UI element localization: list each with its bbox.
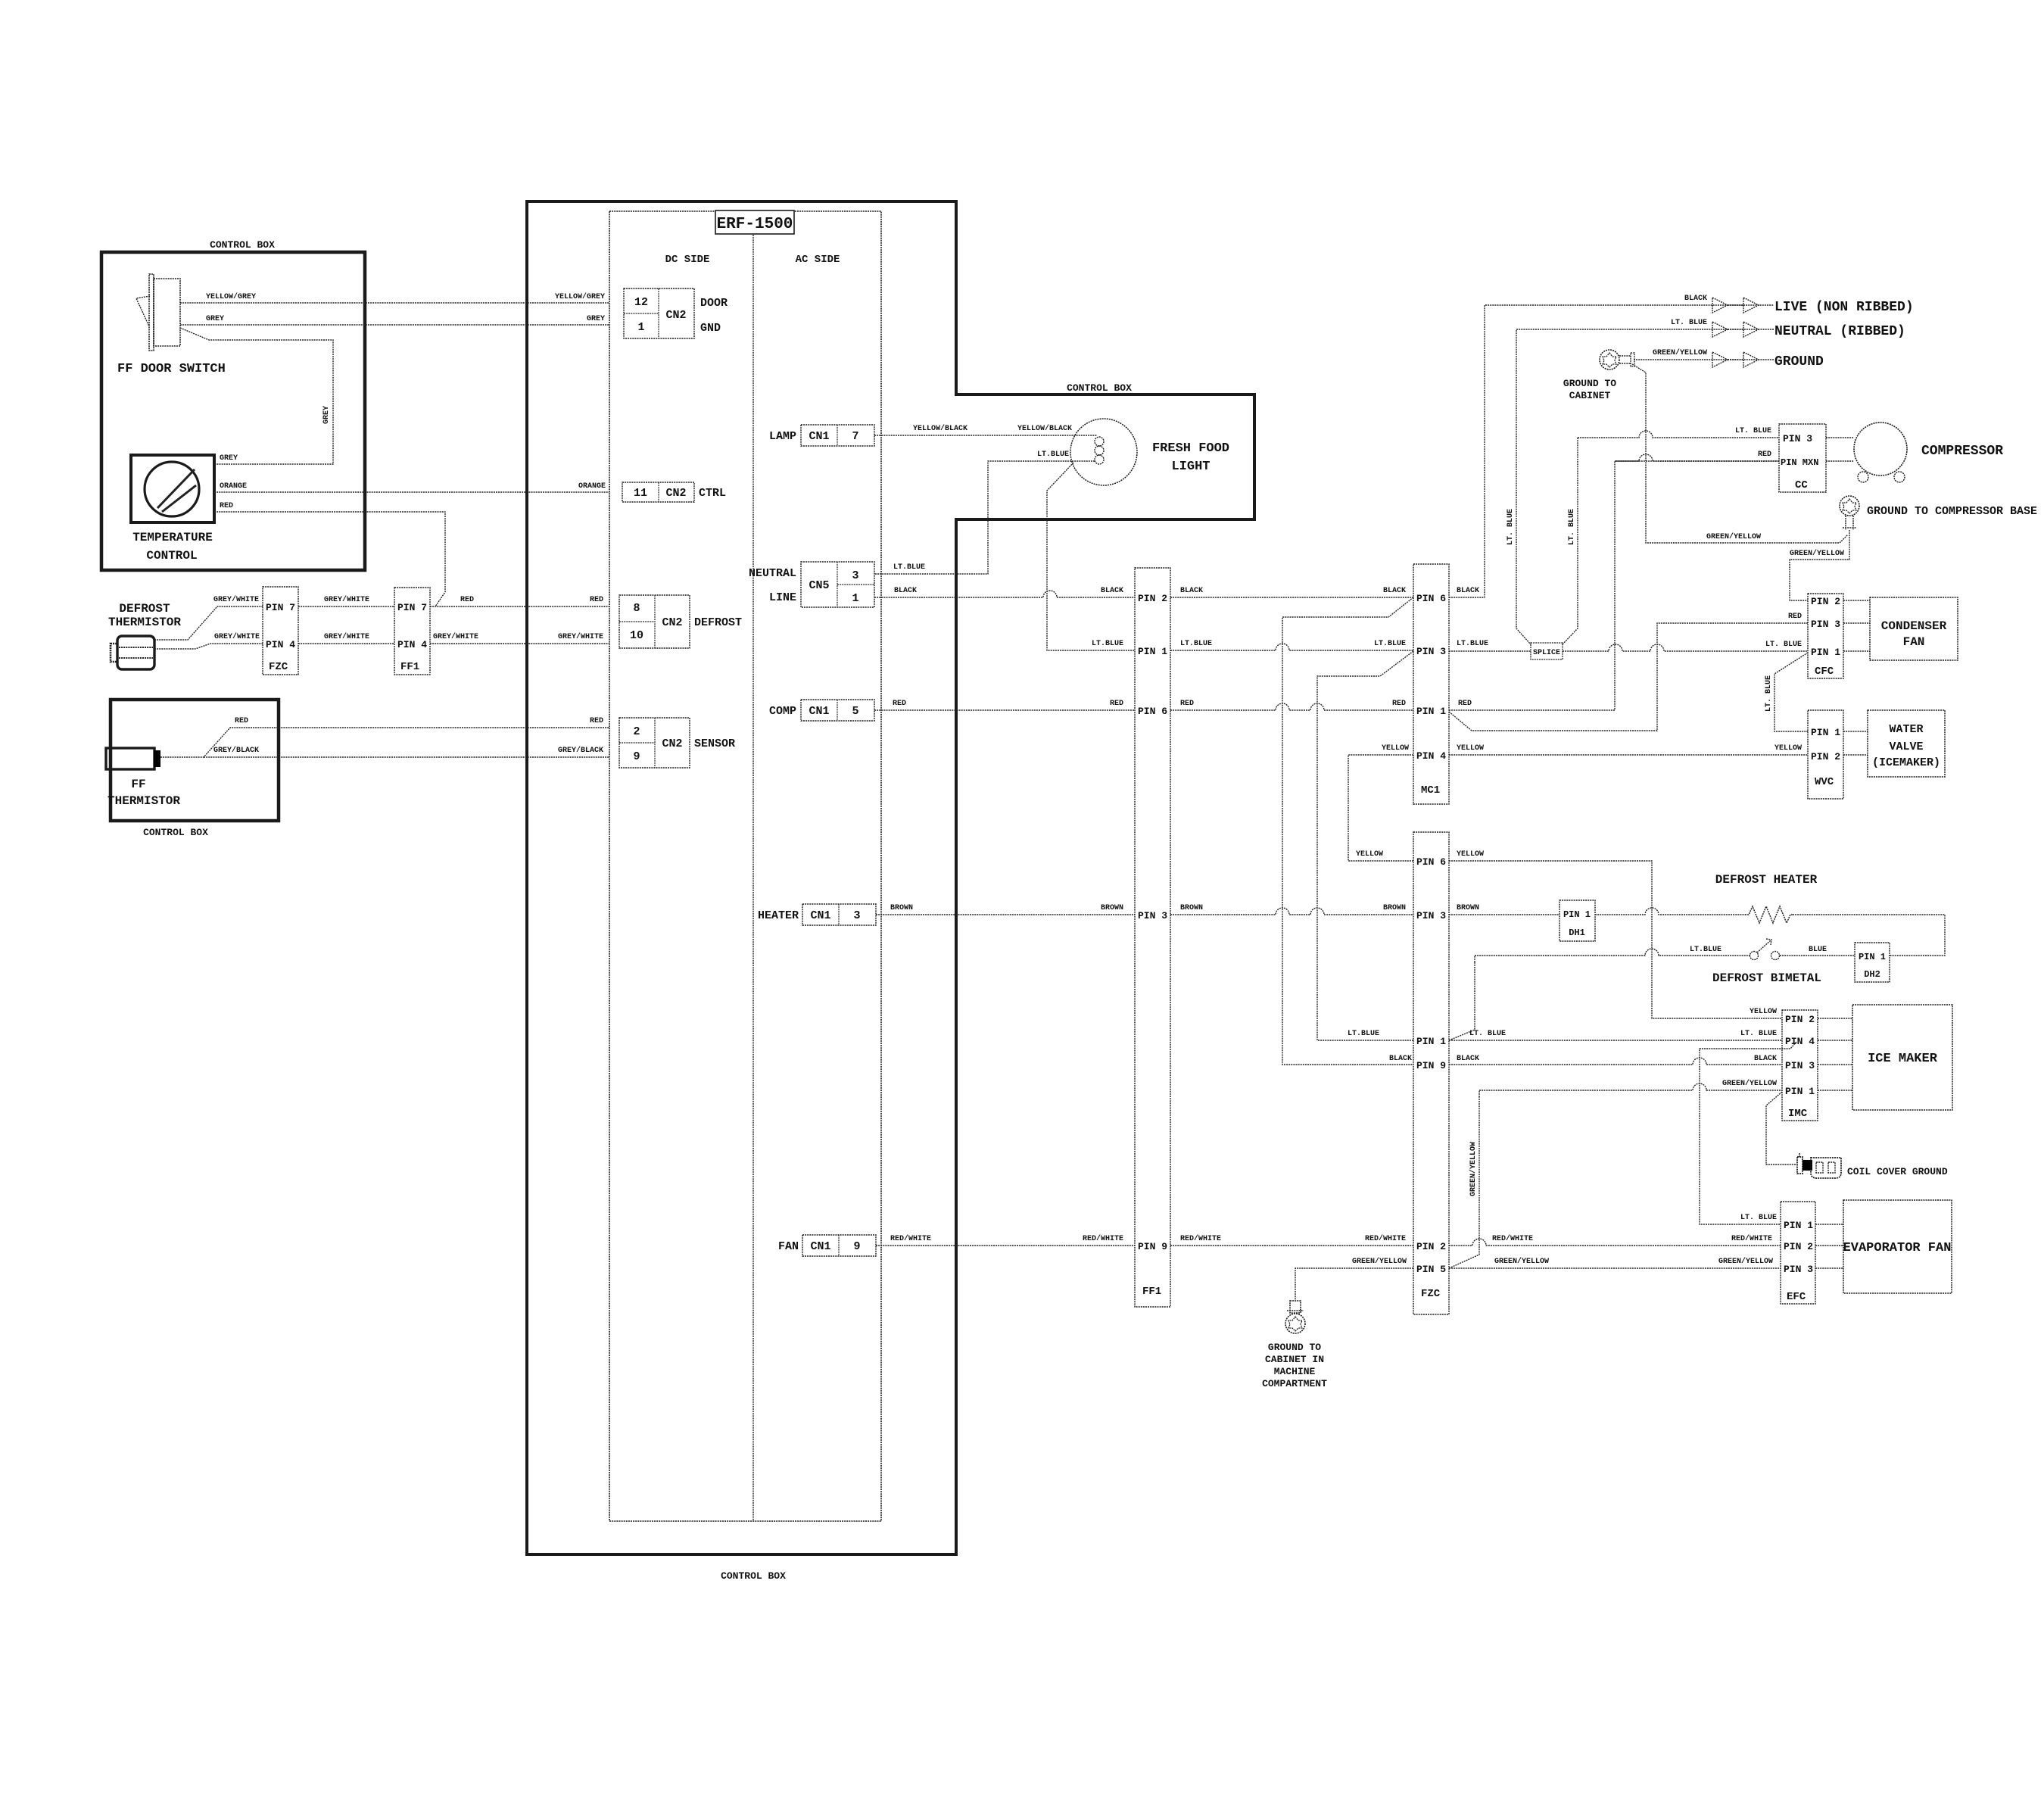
svg-text:LT. BLUE: LT. BLUE xyxy=(1740,1214,1777,1222)
wire LT.BLUE vertical down to splice xyxy=(1563,438,1578,644)
port CN2 DOOR/GND xyxy=(624,288,694,338)
connector EFC column xyxy=(1781,1202,1815,1304)
svg-text:YELLOW: YELLOW xyxy=(1457,850,1484,859)
svg-text:CONTROL BOX: CONTROL BOX xyxy=(143,827,208,838)
wire LT.BLUE MC1 pin3 branch down to FZC pin1 xyxy=(1317,651,1413,1040)
svg-text:RED: RED xyxy=(1180,700,1194,708)
svg-text:PIN MXN: PIN MXN xyxy=(1781,457,1818,468)
temperature control TC1 dial circle xyxy=(145,462,199,516)
wire EFC pin2 to evaporator fan xyxy=(1815,1245,1843,1246)
svg-text:THERMISTOR: THERMISTOR xyxy=(108,616,181,629)
svg-text:YELLOW: YELLOW xyxy=(1356,850,1383,859)
svg-text:LT. BLUE: LT. BLUE xyxy=(1469,1030,1506,1038)
wire WVC pin1 to water valve xyxy=(1843,731,1868,732)
svg-text:PIN 2: PIN 2 xyxy=(1416,1241,1446,1252)
FF door switch S1 body xyxy=(154,279,180,346)
wire LT.BLUE FZC pin1 up to defrost bimetal xyxy=(1449,962,1475,1040)
svg-text:PIN 1: PIN 1 xyxy=(1416,1036,1446,1047)
svg-text:RED/WHITE: RED/WHITE xyxy=(1180,1234,1221,1243)
svg-text:PIN 7: PIN 7 xyxy=(397,602,427,613)
port CN1-7 LAMP xyxy=(801,425,874,446)
svg-text:RED: RED xyxy=(1758,451,1771,459)
wire LT.BLUE FZC pin1 to IMC pin4 xyxy=(1449,1040,1782,1041)
svg-text:EVAPORATOR FAN: EVAPORATOR FAN xyxy=(1843,1241,1952,1255)
svg-text:SPLICE: SPLICE xyxy=(1533,649,1560,657)
wire CFC pin1 to condenser fan xyxy=(1843,650,1870,652)
svg-text:PIN 2: PIN 2 xyxy=(1784,1241,1813,1252)
wire LT.BLUE CFC pin1 down to WVC pin1 xyxy=(1774,653,1808,731)
wire BROWN DH1 to defrost heater xyxy=(1595,908,1745,915)
svg-text:FF DOOR SWITCH: FF DOOR SWITCH xyxy=(117,362,226,376)
svg-text:GREY/WHITE: GREY/WHITE xyxy=(558,632,603,641)
svg-text:FF1: FF1 xyxy=(1142,1286,1161,1298)
ground screw to cabinet xyxy=(1600,350,1619,369)
FF thermistor RT2 cap xyxy=(154,750,160,767)
svg-text:RED/WHITE: RED/WHITE xyxy=(1083,1234,1123,1243)
port CN5 NEUTRAL LINE xyxy=(801,562,874,607)
svg-text:ICE MAKER: ICE MAKER xyxy=(1868,1052,1938,1066)
svg-text:BROWN: BROWN xyxy=(1457,904,1479,912)
wire LT.BLUE lamp down to FF1 pin1 xyxy=(1047,463,1135,650)
connector FZC main column xyxy=(1413,832,1449,1314)
svg-text:RED: RED xyxy=(893,700,906,708)
svg-text:LIVE (NON RIBBED): LIVE (NON RIBBED) xyxy=(1774,300,1914,315)
wire GREY/WHITE FZC pin4 to FF1 pin4 xyxy=(298,643,394,644)
wire GREY/WHITE defrost-thermistor to FZC pin4 xyxy=(154,644,263,649)
svg-text:BLUE: BLUE xyxy=(1809,946,1827,954)
svg-text:GREY/WHITE: GREY/WHITE xyxy=(324,632,369,641)
wire LT.BLUE CC pin3 from splice xyxy=(1578,431,1779,438)
svg-text:GREY/WHITE: GREY/WHITE xyxy=(213,595,259,604)
svg-text:9: 9 xyxy=(633,750,640,763)
svg-text:GREEN/YELLOW: GREEN/YELLOW xyxy=(1718,1257,1773,1266)
svg-text:LT.BLUE: LT.BLUE xyxy=(1457,640,1488,648)
terminal arrows NEUTRAL xyxy=(1712,322,1728,337)
defrost thermistor RT1 stripes xyxy=(119,647,153,648)
connector DH1 box xyxy=(1559,900,1595,941)
svg-text:GROUND: GROUND xyxy=(1774,354,1824,369)
ERF-1500 inner board box xyxy=(609,211,881,1521)
svg-text:HEATER: HEATER xyxy=(758,909,799,922)
svg-text:PIN 4: PIN 4 xyxy=(1416,750,1446,762)
control box (FF thermistor) outline xyxy=(111,700,279,821)
svg-text:GREY/WHITE: GREY/WHITE xyxy=(324,595,369,604)
wire GREEN/YELLOW FZC pin5 to machine-compartment ground xyxy=(1295,1268,1413,1301)
svg-text:LT. BLUE: LT. BLUE xyxy=(1735,427,1771,435)
wire GREEN/YELLOW cabinet ground down to compressor base lug xyxy=(1632,364,1848,543)
svg-text:IMC: IMC xyxy=(1788,1108,1808,1120)
FF door switch S1 plate xyxy=(149,274,154,351)
svg-text:BLACK: BLACK xyxy=(1389,1055,1412,1063)
svg-text:WVC: WVC xyxy=(1815,776,1834,788)
svg-text:BROWN: BROWN xyxy=(1383,904,1406,912)
svg-text:MC1: MC1 xyxy=(1421,784,1440,797)
svg-text:GREY/WHITE: GREY/WHITE xyxy=(433,632,478,641)
wire WVC pin2 to water valve xyxy=(1843,754,1868,756)
svg-text:CN2: CN2 xyxy=(665,309,686,322)
wire RED/WHITE CN1-9 to FF1 pin9 xyxy=(876,1245,1135,1246)
wire YELLOW MC1 pin4 to WVC pin2 xyxy=(1449,754,1808,756)
svg-text:CFC: CFC xyxy=(1815,666,1834,678)
svg-text:LIGHT: LIGHT xyxy=(1171,460,1210,474)
svg-text:CONDENSER: CONDENSER xyxy=(1881,619,1947,633)
wire GREEN/YELLOW FZC pin5 up to IMC pin1 xyxy=(1449,1097,1479,1268)
compressor M1 circle xyxy=(1854,422,1907,475)
terminal arrows GROUND xyxy=(1712,352,1728,367)
defrost thermistor RT1 body xyxy=(117,636,154,669)
wire GREY/WHITE FZC pin7 to FF1 pin7 xyxy=(298,606,394,607)
svg-text:GREY: GREY xyxy=(206,315,224,323)
svg-text:RED/WHITE: RED/WHITE xyxy=(1365,1234,1406,1243)
wire EFC pin3 to evaporator fan xyxy=(1815,1267,1843,1269)
svg-text:RED/WHITE: RED/WHITE xyxy=(1731,1234,1772,1243)
svg-text:PIN 1: PIN 1 xyxy=(1563,909,1591,920)
svg-text:PIN 9: PIN 9 xyxy=(1416,1060,1446,1071)
svg-text:PIN 1: PIN 1 xyxy=(1138,646,1167,657)
svg-text:FF1: FF1 xyxy=(400,661,419,673)
svg-text:CONTROL BOX: CONTROL BOX xyxy=(210,239,275,251)
wire BLUE bimetal to DH2 xyxy=(1780,955,1855,956)
switch defrost bimetal S2 contacts xyxy=(1750,952,1759,960)
wire IMC pin2 to ice maker xyxy=(1818,1018,1852,1019)
wire GREEN/YELLOW compressor base lug down to CFC pin2 xyxy=(1790,530,1849,600)
svg-text:BLACK: BLACK xyxy=(1754,1055,1777,1063)
condenser fan box xyxy=(1870,597,1958,660)
svg-text:BLACK: BLACK xyxy=(1684,295,1707,303)
wire LT.BLUE splice to CFC pin1 xyxy=(1563,644,1808,651)
wire BLACK FZC pin9 to IMC pin3 xyxy=(1449,1058,1782,1065)
svg-text:RED: RED xyxy=(460,596,474,604)
svg-text:EFC: EFC xyxy=(1787,1291,1806,1303)
wire CFC pin3 to condenser fan xyxy=(1843,622,1870,624)
port CN1-3 HEATER xyxy=(802,904,876,925)
port CN2 SENSOR xyxy=(619,718,690,768)
svg-text:PIN 2: PIN 2 xyxy=(1785,1014,1815,1025)
wire LT.BLUE FF1 pin1 to MC1 pin3 xyxy=(1170,644,1413,650)
svg-text:BROWN: BROWN xyxy=(1101,904,1123,912)
svg-text:BLACK: BLACK xyxy=(1457,1055,1479,1063)
svg-text:PIN 3: PIN 3 xyxy=(1416,646,1446,657)
svg-text:LT. BLUE: LT. BLUE xyxy=(1765,675,1773,712)
svg-text:DH2: DH2 xyxy=(1864,969,1880,980)
wire RED FF-thermistor to CN2-2 xyxy=(160,728,609,757)
svg-text:PIN 9: PIN 9 xyxy=(1138,1241,1167,1252)
svg-text:PIN 6: PIN 6 xyxy=(1416,856,1446,868)
svg-text:CONTROL: CONTROL xyxy=(146,549,197,563)
svg-text:RED: RED xyxy=(220,502,233,510)
svg-text:GND: GND xyxy=(700,322,721,335)
svg-text:RED: RED xyxy=(1788,613,1802,621)
svg-text:RED: RED xyxy=(1110,700,1123,708)
svg-text:PIN 3: PIN 3 xyxy=(1783,433,1812,444)
FF thermistor RT2 body xyxy=(106,748,154,769)
wire YELLOW FZC pin6 down to IMC pin2 xyxy=(1449,861,1782,1018)
wire RED FF1 pin6 to MC1 pin1 xyxy=(1170,703,1413,710)
svg-text:PIN 3: PIN 3 xyxy=(1811,619,1840,630)
wire BROWN FF1 pin3 to FZC pin3 xyxy=(1170,908,1413,915)
wire CFC pin2 to condenser fan xyxy=(1843,600,1870,601)
ERF-1500 DC/AC divider xyxy=(752,211,754,1521)
svg-text:CTRL: CTRL xyxy=(699,487,726,500)
svg-text:PIN 3: PIN 3 xyxy=(1784,1264,1813,1275)
wire YELLOW/GREY door-switch to CN2-12 xyxy=(180,302,609,304)
svg-text:2: 2 xyxy=(633,725,640,738)
svg-text:RED: RED xyxy=(1392,700,1406,708)
svg-text:PIN 6: PIN 6 xyxy=(1138,706,1167,717)
svg-text:PIN 1: PIN 1 xyxy=(1859,952,1886,962)
wire BROWN FZC pin3 to DH1 xyxy=(1449,914,1559,915)
wire BLACK MC1 pin6 up to LIVE xyxy=(1449,305,1774,597)
ground lug to cabinet in machine compartment xyxy=(1290,1301,1301,1313)
wire RED MC1 pin1 jog to CFC pin3 xyxy=(1449,623,1808,731)
svg-text:FF: FF xyxy=(131,778,145,791)
svg-text:DC SIDE: DC SIDE xyxy=(665,254,710,266)
svg-text:RED: RED xyxy=(590,717,603,725)
port CN1-9 FAN xyxy=(802,1235,876,1256)
svg-text:NEUTRAL (RIBBED): NEUTRAL (RIBBED) xyxy=(1774,324,1905,339)
wire RED/WHITE FZC pin2 to EFC pin2 xyxy=(1449,1239,1781,1246)
svg-text:GROUND TO: GROUND TO xyxy=(1268,1342,1321,1353)
svg-text:GREEN/YELLOW: GREEN/YELLOW xyxy=(1494,1257,1549,1266)
wire YELLOW MC1 pin4 to FZC pin6 xyxy=(1348,755,1413,861)
svg-text:GREY: GREY xyxy=(587,315,605,323)
svg-text:AC SIDE: AC SIDE xyxy=(796,254,840,266)
svg-text:ERF-1500: ERF-1500 xyxy=(717,216,793,233)
temperature control TC1 box xyxy=(131,455,214,522)
svg-text:PIN 1: PIN 1 xyxy=(1785,1086,1815,1097)
wire IMC pin1 to ice maker xyxy=(1818,1090,1852,1091)
connector MC1 column xyxy=(1413,564,1449,804)
svg-text:CABINET IN: CABINET IN xyxy=(1265,1354,1324,1365)
svg-text:WATER: WATER xyxy=(1889,723,1923,736)
wire GREEN/YELLOW cabinet ground to GROUND xyxy=(1634,359,1774,360)
svg-text:8: 8 xyxy=(633,602,640,615)
svg-text:COIL COVER GROUND: COIL COVER GROUND xyxy=(1847,1166,1948,1177)
svg-text:LT.BLUE: LT.BLUE xyxy=(1037,451,1069,459)
wire RED FF1 pin7 to CN2-8 xyxy=(430,606,609,607)
connector CC box xyxy=(1779,424,1826,492)
svg-text:PIN 4: PIN 4 xyxy=(266,639,295,650)
connector DH2 box xyxy=(1855,943,1890,982)
ERF-1500 control box outer outline with fresh-food-light bay xyxy=(527,201,1254,1554)
svg-text:7: 7 xyxy=(852,430,858,443)
svg-text:PIN 3: PIN 3 xyxy=(1138,910,1167,921)
svg-text:CN1: CN1 xyxy=(809,430,829,443)
ice maker box xyxy=(1852,1005,1952,1110)
wire RED temp-control down to FF1 pin7 node xyxy=(214,512,445,606)
svg-text:LAMP: LAMP xyxy=(769,430,796,443)
svg-text:YELLOW: YELLOW xyxy=(1750,1008,1777,1016)
svg-text:3: 3 xyxy=(853,909,860,922)
svg-text:GREEN/YELLOW: GREEN/YELLOW xyxy=(1469,1142,1478,1196)
svg-text:DEFROST BIMETAL: DEFROST BIMETAL xyxy=(1712,971,1821,985)
svg-text:LT.BLUE: LT.BLUE xyxy=(1374,640,1406,648)
lamp DS1 filament coil xyxy=(1095,437,1104,446)
wire RED CN1-5 to FF1 pin6 xyxy=(874,709,1135,711)
svg-text:PIN 3: PIN 3 xyxy=(1785,1060,1815,1071)
wire GREY/WHITE defrost-thermistor to FZC pin7 xyxy=(154,606,263,640)
svg-text:GREY: GREY xyxy=(322,406,331,424)
terminal arrows LIVE xyxy=(1712,298,1728,313)
svg-text:ORANGE: ORANGE xyxy=(578,482,606,491)
switch defrost bimetal S2 arm xyxy=(1757,940,1771,953)
connector IMC column xyxy=(1782,1010,1818,1121)
svg-text:RED: RED xyxy=(235,717,248,725)
svg-text:LT. BLUE: LT. BLUE xyxy=(1765,641,1802,649)
svg-text:PIN 1: PIN 1 xyxy=(1416,706,1446,717)
defrost thermistor RT1 left tab xyxy=(111,644,117,662)
svg-text:CC: CC xyxy=(1795,479,1808,491)
svg-text:YELLOW: YELLOW xyxy=(1457,744,1484,753)
svg-text:YELLOW/BLACK: YELLOW/BLACK xyxy=(913,424,967,433)
svg-text:FAN: FAN xyxy=(1903,635,1925,649)
wire GREY/BLACK FF-thermistor to CN2-9 xyxy=(204,756,609,758)
wire RED CC pin MXN segment hop xyxy=(1615,454,1779,461)
svg-text:DH1: DH1 xyxy=(1569,928,1585,938)
svg-text:DEFROST: DEFROST xyxy=(119,602,170,616)
svg-text:VALVE: VALVE xyxy=(1889,740,1923,753)
water valve box xyxy=(1868,710,1945,777)
wire GREY door-switch branch down to temperature control xyxy=(180,328,333,464)
wire CC mxn to compressor xyxy=(1826,460,1854,462)
svg-text:GREEN/YELLOW: GREEN/YELLOW xyxy=(1706,532,1761,541)
svg-text:LT.BLUE: LT.BLUE xyxy=(893,563,925,572)
ground coil cover lug xyxy=(1797,1157,1803,1174)
svg-text:SENSOR: SENSOR xyxy=(694,737,735,750)
wire LT.BLUE jog branch down to EFC pin1 xyxy=(1700,1042,1796,1224)
svg-text:CN2: CN2 xyxy=(665,487,686,500)
svg-text:YELLOW/BLACK: YELLOW/BLACK xyxy=(1017,424,1072,433)
wire LT.BLUE lamp to CN5-3 xyxy=(874,461,1095,574)
svg-text:LT.BLUE: LT.BLUE xyxy=(1180,640,1212,648)
svg-text:DEFROST: DEFROST xyxy=(694,616,742,629)
svg-text:BLACK: BLACK xyxy=(1457,587,1479,595)
wire LT.BLUE NEUTRAL down to splice xyxy=(1516,329,1774,644)
wire BLACK CN5-1 to FF1 pin2 xyxy=(874,591,1135,597)
svg-text:FZC: FZC xyxy=(1421,1288,1441,1300)
connector FF1 (defrost thermistor) xyxy=(394,588,430,675)
svg-text:BROWN: BROWN xyxy=(1180,904,1203,912)
svg-text:CN2: CN2 xyxy=(662,737,682,750)
resistor defrost heater R1 xyxy=(1745,906,1793,923)
connector FZC (defrost thermistor) xyxy=(263,587,298,675)
svg-text:CN5: CN5 xyxy=(809,579,829,592)
svg-text:PIN 3: PIN 3 xyxy=(1416,910,1446,921)
svg-text:PIN 1: PIN 1 xyxy=(1784,1220,1813,1231)
svg-text:5: 5 xyxy=(852,705,858,718)
svg-text:GREY: GREY xyxy=(220,454,238,463)
FF door switch S1 actuator wedge xyxy=(136,296,150,326)
lamp DS1 fresh food light circle xyxy=(1070,419,1137,485)
svg-text:LT.BLUE: LT.BLUE xyxy=(1690,946,1722,954)
svg-text:NEUTRAL: NEUTRAL xyxy=(749,567,796,580)
svg-text:11: 11 xyxy=(634,487,647,500)
svg-text:1: 1 xyxy=(852,592,858,605)
evaporator fan box xyxy=(1843,1200,1952,1293)
svg-text:MACHINE: MACHINE xyxy=(1274,1366,1316,1377)
svg-text:YELLOW: YELLOW xyxy=(1774,744,1802,753)
svg-text:PIN 2: PIN 2 xyxy=(1811,751,1840,762)
svg-text:LT. BLUE: LT. BLUE xyxy=(1568,509,1576,545)
svg-text:RED/WHITE: RED/WHITE xyxy=(890,1234,931,1243)
svg-text:BLACK: BLACK xyxy=(1383,587,1406,595)
control box (FF door switch / temperature control) outline xyxy=(101,252,365,570)
port CN2 CTRL xyxy=(622,482,694,502)
wire EFC pin1 to evaporator fan xyxy=(1815,1224,1843,1225)
svg-text:3: 3 xyxy=(852,569,858,582)
svg-text:PIN 2: PIN 2 xyxy=(1811,596,1840,607)
wire BLACK MC1 pin6 branch down to FZC pin9 xyxy=(1282,597,1413,1065)
svg-text:PIN 6: PIN 6 xyxy=(1416,593,1446,604)
svg-text:1: 1 xyxy=(637,321,644,334)
svg-text:PIN 2: PIN 2 xyxy=(1138,593,1167,604)
svg-text:9: 9 xyxy=(853,1240,860,1253)
svg-text:THERMISTOR: THERMISTOR xyxy=(107,794,180,808)
wire LT.BLUE MC1 pin3 to splice xyxy=(1449,650,1531,652)
svg-text:BLACK: BLACK xyxy=(1101,587,1123,595)
svg-text:YELLOW/GREY: YELLOW/GREY xyxy=(206,292,256,301)
svg-text:BROWN: BROWN xyxy=(890,904,913,912)
ERF-1500 title box U1 xyxy=(715,210,794,234)
wire ORANGE temp-control to CN2-11 xyxy=(214,491,609,493)
svg-text:LT.BLUE: LT.BLUE xyxy=(1092,640,1123,648)
svg-text:CONTROL BOX: CONTROL BOX xyxy=(1067,382,1132,394)
svg-text:PIN 1: PIN 1 xyxy=(1811,727,1840,738)
wire BLACK FF1 pin2 to MC1 pin6 xyxy=(1170,597,1413,598)
svg-text:BLACK: BLACK xyxy=(894,587,917,595)
connector CFC column xyxy=(1808,594,1843,678)
svg-text:CONTROL BOX: CONTROL BOX xyxy=(721,1570,786,1582)
svg-text:GREEN/YELLOW: GREEN/YELLOW xyxy=(1722,1079,1777,1088)
svg-text:GREY/WHITE: GREY/WHITE xyxy=(214,632,260,641)
svg-text:COMP: COMP xyxy=(769,705,796,718)
svg-text:GREEN/YELLOW: GREEN/YELLOW xyxy=(1653,348,1707,357)
svg-text:CN1: CN1 xyxy=(810,1240,830,1253)
svg-text:LT. BLUE: LT. BLUE xyxy=(1740,1030,1777,1038)
svg-text:COMPRESSOR: COMPRESSOR xyxy=(1921,444,2003,459)
svg-text:COMPARTMENT: COMPARTMENT xyxy=(1262,1378,1327,1389)
wire RED MC1 pin1 up to CC PIN MXN xyxy=(1449,461,1779,710)
svg-text:(ICEMAKER): (ICEMAKER) xyxy=(1872,756,1940,769)
svg-text:RED: RED xyxy=(1458,700,1472,708)
svg-text:ORANGE: ORANGE xyxy=(220,482,247,491)
wire IMC pin4 to ice maker xyxy=(1818,1040,1852,1041)
svg-text:CN1: CN1 xyxy=(810,909,830,922)
svg-text:PIN 1: PIN 1 xyxy=(1811,647,1840,658)
svg-text:PIN 7: PIN 7 xyxy=(266,602,295,613)
svg-text:GROUND TO COMPRESSOR BASE: GROUND TO COMPRESSOR BASE xyxy=(1867,505,2037,518)
wire GREY/WHITE FF1 pin4 to CN2-10 xyxy=(430,643,609,644)
wire CC pin3 to compressor xyxy=(1826,437,1854,438)
svg-text:DOOR: DOOR xyxy=(700,297,728,310)
svg-text:FZC: FZC xyxy=(269,661,288,673)
wire BROWN CN1-3 to FF1 pin3 xyxy=(876,914,1135,915)
svg-text:GREEN/YELLOW: GREEN/YELLOW xyxy=(1352,1257,1407,1266)
wire YELLOW/BLACK CN1-7 to lamp xyxy=(874,435,1097,436)
splice SP1 box xyxy=(1531,643,1563,659)
port CN2 DEFROST xyxy=(619,595,690,648)
svg-text:CABINET: CABINET xyxy=(1569,390,1611,401)
connector WVC column xyxy=(1808,710,1843,799)
svg-text:PIN 5: PIN 5 xyxy=(1416,1264,1446,1275)
svg-text:TEMPERATURE: TEMPERATURE xyxy=(132,531,213,544)
svg-text:12: 12 xyxy=(634,296,648,309)
svg-text:PIN 4: PIN 4 xyxy=(397,639,427,650)
svg-text:10: 10 xyxy=(630,629,643,642)
svg-text:BLACK: BLACK xyxy=(1180,587,1203,595)
svg-text:LT. BLUE: LT. BLUE xyxy=(1671,319,1707,327)
svg-text:RED: RED xyxy=(590,596,603,604)
